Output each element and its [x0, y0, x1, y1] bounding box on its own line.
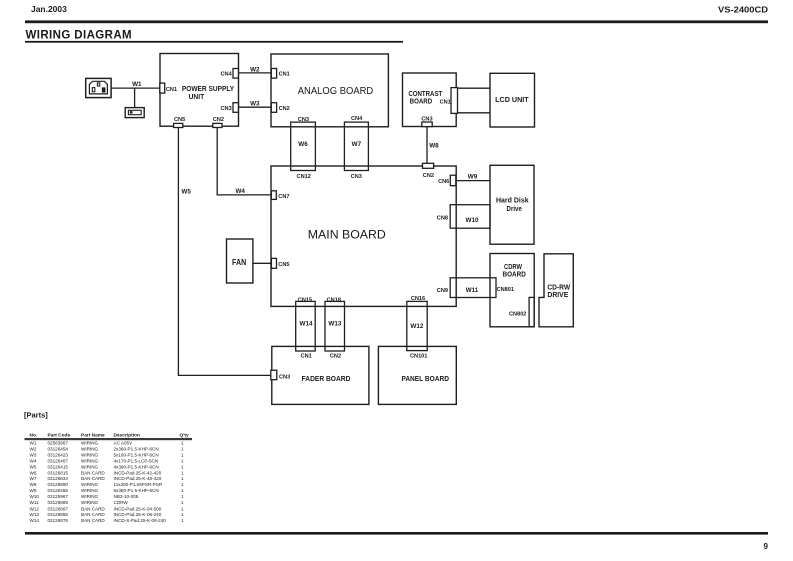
svg-text:BAN CARD: BAN CARD [81, 476, 105, 481]
svg-text:1: 1 [181, 476, 184, 481]
svg-text:CN8: CN8 [437, 216, 448, 222]
svg-text:CN3: CN3 [421, 117, 432, 123]
connector CN6 main right [450, 175, 456, 186]
svg-text:WIRING: WIRING [81, 482, 99, 487]
svg-text:CD-RW: CD-RW [547, 285, 570, 292]
svg-text:W12: W12 [30, 507, 40, 512]
connector CN3 fader [271, 370, 277, 380]
svg-text:W7: W7 [30, 476, 37, 481]
wiring W11 box [450, 278, 496, 298]
svg-text:CN5: CN5 [278, 262, 289, 268]
svg-text:BAN CARD: BAN CARD [81, 507, 105, 512]
svg-text:WIRING: WIRING [81, 452, 99, 457]
fan box [227, 239, 253, 283]
AC inlet pin right [102, 88, 105, 92]
wire W2 [238, 72, 271, 74]
svg-text:CN2: CN2 [330, 354, 341, 360]
svg-text:WIRING DIAGRAM: WIRING DIAGRAM [26, 30, 133, 42]
svg-text:CN18: CN18 [327, 298, 341, 304]
svg-text:Part Code: Part Code [48, 432, 71, 438]
wire W5 [178, 128, 270, 376]
svg-text:1: 1 [181, 512, 184, 517]
svg-text:03126454: 03126454 [48, 446, 69, 451]
svg-text:CN3: CN3 [298, 117, 309, 123]
svg-text:INCD-Pad.25-K-42-420: INCD-Pad.25-K-42-420 [114, 470, 162, 475]
contrast board box [403, 73, 457, 127]
svg-text:CONTRAST: CONTRAST [408, 91, 443, 98]
svg-text:INCD-Pad.25-K-04-500: INCD-Pad.25-K-04-500 [114, 507, 162, 512]
svg-text:AC A05V: AC A05V [114, 440, 134, 445]
cdrw board box [490, 254, 534, 327]
svg-text:BAN CARD: BAN CARD [81, 470, 105, 475]
svg-text:4x390-P1.5-KHP-6CN: 4x390-P1.5-KHP-6CN [114, 465, 159, 470]
svg-text:WIRING: WIRING [81, 459, 99, 464]
connector CN7 main left [271, 191, 276, 200]
svg-text:03126878: 03126878 [48, 518, 69, 523]
hard disk drive box [490, 165, 534, 244]
svg-text:W6: W6 [298, 141, 308, 148]
fan wire [253, 262, 272, 264]
svg-text:W6: W6 [30, 470, 37, 475]
bancard W13 [325, 301, 345, 351]
svg-text:CN4: CN4 [220, 71, 232, 77]
svg-text:POWER SUPPLY: POWER SUPPLY [182, 86, 235, 93]
connector CN3 contrast bottom [422, 122, 432, 127]
svg-text:W12: W12 [410, 323, 423, 330]
svg-text:W7: W7 [352, 141, 362, 148]
svg-text:CN12: CN12 [297, 174, 311, 180]
power supply unit box [160, 54, 239, 127]
svg-text:Part Name: Part Name [81, 432, 105, 438]
connector CN1 PSU [160, 83, 165, 93]
svg-text:03126890: 03126890 [48, 482, 69, 487]
svg-text:CN2: CN2 [279, 106, 290, 112]
svg-text:CN1: CN1 [279, 71, 290, 77]
svg-text:03126415: 03126415 [48, 465, 69, 470]
svg-text:1: 1 [181, 440, 184, 445]
svg-text:2x360-P1.5-KHP-6CN: 2x360-P1.5-KHP-6CN [114, 446, 159, 451]
svg-text:6x360-P1.5-KHP-6CN: 6x360-P1.5-KHP-6CN [114, 488, 159, 493]
svg-text:CN802: CN802 [509, 312, 526, 318]
wire W3 [238, 106, 271, 108]
svg-text:PANEL BOARD: PANEL BOARD [401, 376, 449, 383]
svg-text:03125967: 03125967 [48, 494, 69, 499]
AC inlet body [89, 81, 107, 94]
svg-text:WIRING: WIRING [81, 465, 99, 470]
parts table header [30, 432, 189, 438]
svg-text:CN5: CN5 [174, 117, 185, 123]
connector CN4 PSU [233, 69, 238, 79]
svg-text:W2: W2 [250, 66, 260, 73]
svg-text:LCD UNIT: LCD UNIT [495, 97, 529, 104]
svg-text:1: 1 [181, 500, 184, 505]
svg-text:CN2: CN2 [213, 117, 224, 123]
svg-text:W9: W9 [30, 488, 37, 493]
svg-text:BOARD: BOARD [502, 272, 526, 279]
power switch dot [130, 111, 133, 114]
svg-text:Drive: Drive [507, 206, 522, 213]
svg-text:03126467: 03126467 [48, 459, 69, 464]
footer rule [25, 532, 768, 535]
svg-text:1: 1 [181, 459, 184, 464]
svg-text:WIRING: WIRING [81, 440, 99, 445]
svg-text:1: 1 [181, 518, 184, 523]
svg-text:4x170-P1.5-LCP-5CN: 4x170-P1.5-LCP-5CN [114, 459, 159, 464]
svg-text:03126856: 03126856 [48, 512, 69, 517]
lcd unit box [490, 73, 535, 127]
analog board box [271, 54, 388, 127]
svg-text:03126456: 03126456 [48, 488, 69, 493]
svg-text:CN3: CN3 [351, 174, 362, 180]
svg-text:CN1: CN1 [440, 100, 451, 106]
svg-text:1: 1 [181, 446, 184, 451]
connector CN5 main left [271, 258, 276, 268]
svg-text:1: 1 [181, 465, 184, 470]
svg-text:03126889: 03126889 [48, 500, 69, 505]
svg-text:CN4: CN4 [351, 116, 363, 122]
svg-text:CN3: CN3 [279, 374, 290, 380]
lcd ribbon wires [458, 87, 491, 89]
svg-text:W13: W13 [328, 320, 341, 327]
wire W9 [456, 180, 490, 182]
connector CN2 PSU bottom [213, 123, 222, 127]
svg-text:02563967: 02563967 [48, 440, 69, 445]
svg-text:03126423: 03126423 [48, 452, 69, 457]
svg-text:CN15: CN15 [298, 298, 312, 304]
svg-text:MAIN BOARD: MAIN BOARD [308, 228, 386, 242]
svg-text:CN6: CN6 [438, 179, 449, 185]
svg-text:UNIT: UNIT [189, 94, 205, 101]
bancard W6 [291, 122, 316, 170]
svg-text:CN1: CN1 [301, 354, 312, 360]
svg-text:W9: W9 [468, 173, 478, 180]
header rule [25, 20, 768, 23]
svg-text:CN1: CN1 [166, 87, 177, 93]
connector CN3 PSU [233, 103, 238, 113]
svg-text:W13: W13 [30, 512, 40, 517]
bancard W12 [407, 301, 427, 350]
connector CN2 analog [271, 103, 276, 113]
main board box [271, 166, 456, 306]
svg-text:W11: W11 [30, 500, 40, 505]
wire W8 [426, 127, 428, 164]
svg-text:03126834: 03126834 [48, 476, 69, 481]
svg-text:No.: No. [30, 432, 38, 438]
svg-text:1: 1 [181, 482, 184, 487]
AC inlet pin center [97, 83, 99, 86]
svg-text:W5: W5 [181, 189, 191, 196]
svg-text:CN101: CN101 [410, 354, 427, 360]
wire W1 branch to switch [134, 88, 136, 108]
svg-text:CDRW: CDRW [504, 264, 522, 271]
svg-text:1: 1 [181, 452, 184, 457]
svg-text:5x160-P1.5-KHP-6CN: 5x160-P1.5-KHP-6CN [114, 452, 159, 457]
svg-text:CN9: CN9 [437, 288, 448, 294]
svg-text:W10: W10 [466, 217, 479, 224]
svg-text:W1: W1 [132, 81, 142, 88]
svg-text:W5: W5 [30, 465, 37, 470]
svg-text:CN16: CN16 [411, 296, 425, 302]
svg-text:CN3: CN3 [220, 106, 231, 112]
svg-text:Hard Disk: Hard Disk [496, 198, 529, 205]
svg-text:[Parts]: [Parts] [24, 411, 48, 420]
svg-text:INCD-Pad.25-K-46-420: INCD-Pad.25-K-46-420 [114, 476, 162, 481]
svg-text:9: 9 [764, 542, 769, 551]
svg-text:WIRING: WIRING [81, 488, 99, 493]
svg-text:BAN CARD: BAN CARD [81, 512, 105, 517]
connector CN1 contrast [451, 88, 458, 114]
svg-text:FAN: FAN [232, 258, 246, 267]
svg-text:NB3-10-005: NB3-10-005 [114, 494, 139, 499]
svg-text:1: 1 [181, 507, 184, 512]
svg-text:CDRW: CDRW [114, 500, 129, 505]
wire W4 [217, 128, 271, 195]
connector CN5 PSU bottom [174, 123, 183, 127]
svg-text:WIRING: WIRING [81, 494, 99, 499]
svg-text:W3: W3 [250, 101, 260, 108]
cd-rw drive box [539, 254, 573, 327]
connector CN2 main top [423, 163, 434, 168]
svg-text:11x200-P1.06PSR-PSR: 11x200-P1.06PSR-PSR [114, 482, 163, 487]
svg-text:DRIVE: DRIVE [547, 292, 568, 299]
svg-text:1: 1 [181, 488, 184, 493]
svg-text:INCD-Pad.25-K-06-240: INCD-Pad.25-K-06-240 [114, 512, 162, 517]
svg-text:W4: W4 [30, 459, 37, 464]
svg-text:BOARD: BOARD [410, 99, 433, 106]
bancard W7 [344, 122, 368, 170]
svg-text:W10: W10 [30, 494, 40, 499]
connector CN802 [529, 297, 534, 326]
svg-text:1: 1 [181, 494, 184, 499]
svg-text:1: 1 [181, 470, 184, 475]
parts table rule [25, 438, 193, 440]
svg-text:W14: W14 [300, 320, 313, 327]
svg-text:CN801: CN801 [497, 287, 514, 293]
svg-text:BAN CARD: BAN CARD [81, 518, 105, 523]
svg-text:VS-2400CD: VS-2400CD [718, 6, 768, 15]
svg-text:W14: W14 [30, 518, 40, 523]
AC inlet outer [86, 78, 111, 97]
svg-text:03126815: 03126815 [48, 470, 69, 475]
svg-text:W1: W1 [30, 440, 37, 445]
svg-text:ANALOG BOARD: ANALOG BOARD [298, 86, 374, 97]
svg-text:W3: W3 [30, 452, 37, 457]
svg-text:Q'ty: Q'ty [180, 432, 189, 438]
bancard W14 [296, 301, 316, 351]
svg-text:W4: W4 [235, 188, 245, 195]
svg-text:W2: W2 [30, 446, 37, 451]
svg-text:Description: Description [114, 432, 140, 438]
fader board box [272, 346, 369, 404]
svg-text:INCD-S-Pad.25-K-06-240: INCD-S-Pad.25-K-06-240 [114, 518, 167, 523]
svg-text:CN2: CN2 [423, 173, 434, 179]
svg-text:W11: W11 [466, 287, 479, 294]
svg-text:WIRING: WIRING [81, 500, 99, 505]
wiring W10 box [450, 205, 490, 229]
power switch outer [125, 108, 144, 118]
panel board box [378, 346, 456, 404]
svg-text:WIRING: WIRING [81, 446, 99, 451]
svg-text:03126867: 03126867 [48, 507, 69, 512]
wire W1 [111, 87, 160, 89]
connector CN1 analog [271, 69, 276, 79]
svg-text:CN7: CN7 [278, 194, 289, 200]
AC inlet pin left [92, 88, 95, 92]
svg-text:W8: W8 [30, 482, 37, 487]
parts table rows [30, 440, 185, 523]
svg-text:FADER BOARD: FADER BOARD [302, 376, 351, 383]
svg-text:Jan.2003: Jan.2003 [31, 5, 67, 14]
svg-text:W8: W8 [429, 143, 439, 150]
title underline [25, 41, 403, 43]
power switch inner [128, 110, 141, 114]
